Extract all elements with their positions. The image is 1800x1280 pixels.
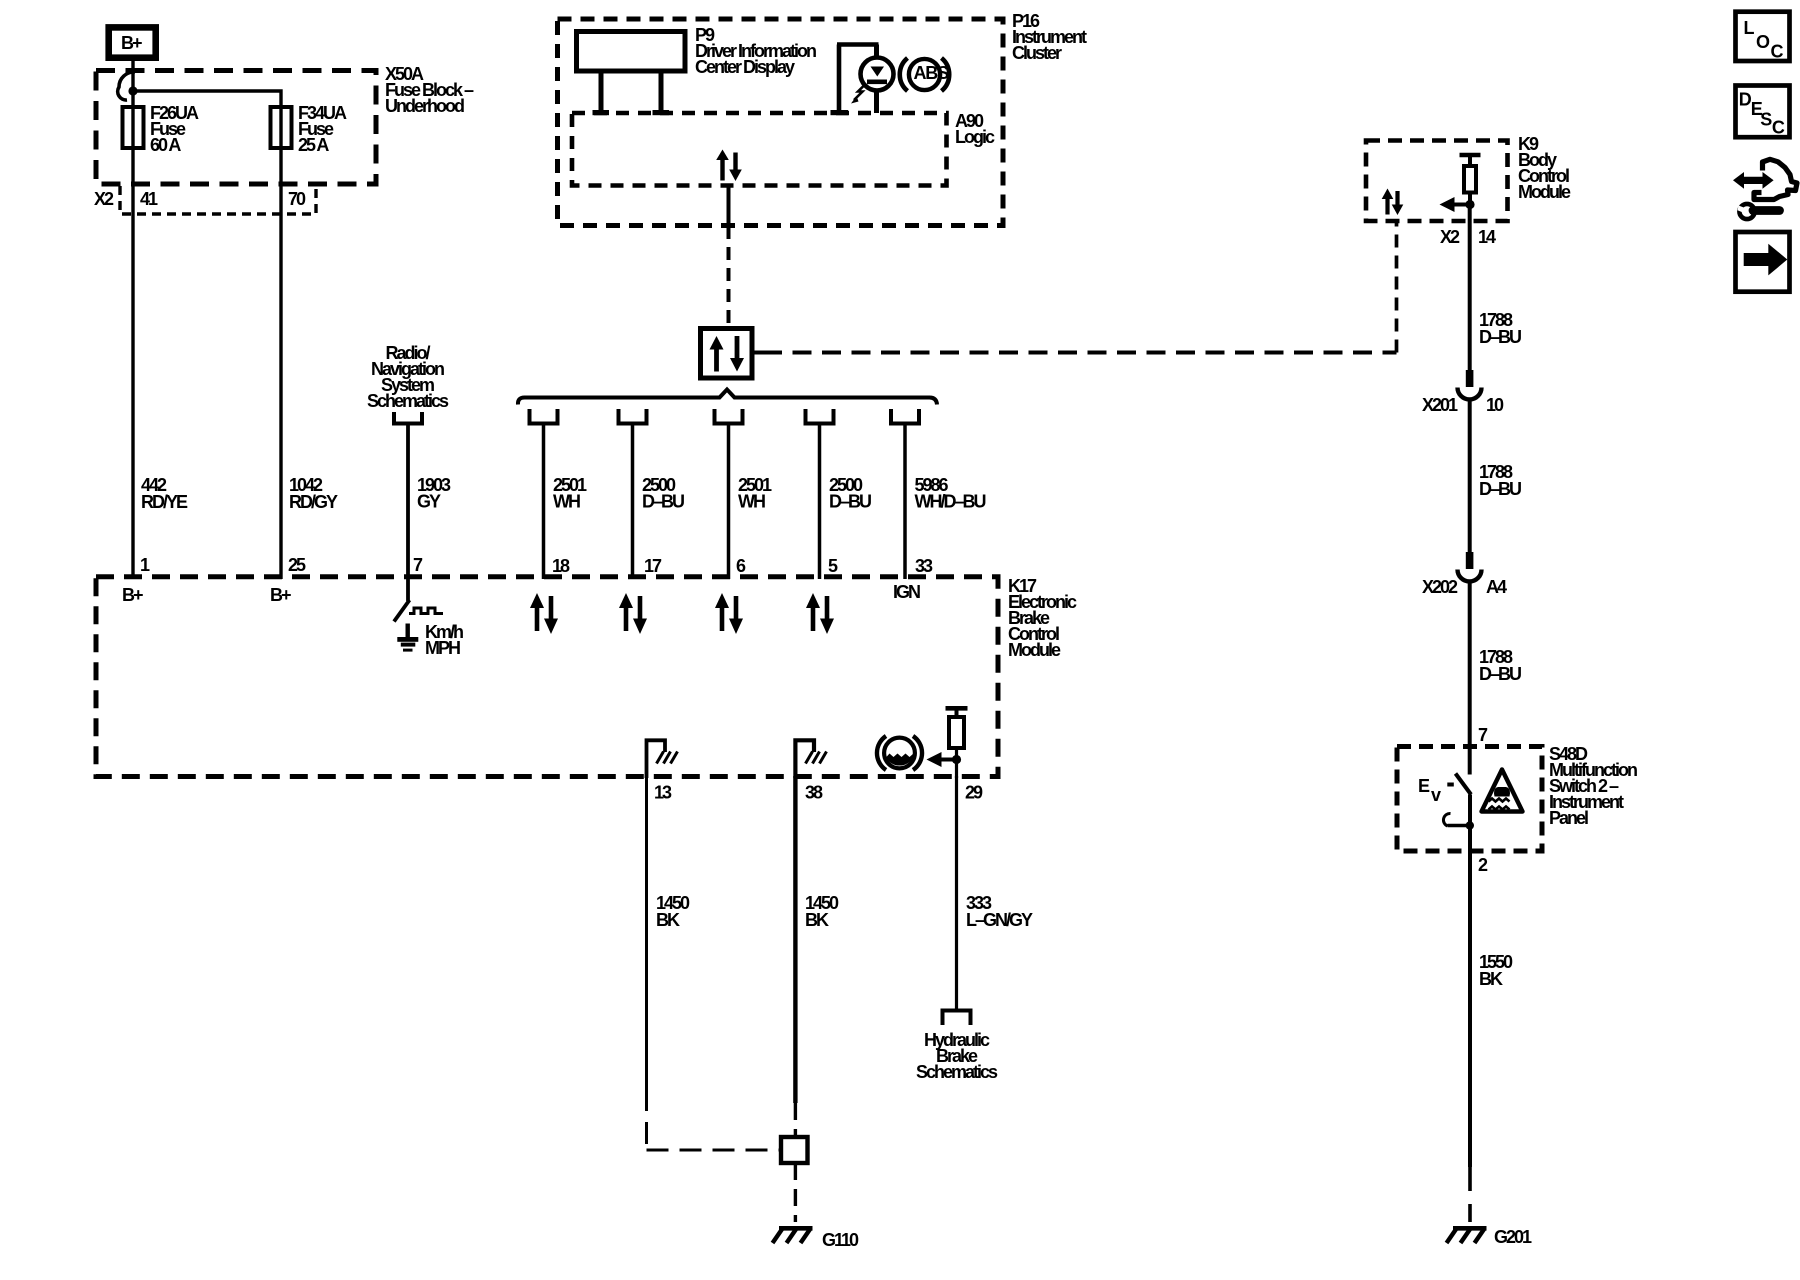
label fuse F34UA 25 A	[298, 103, 347, 155]
label K9 Body Control Module	[1518, 134, 1571, 202]
serial data arrows K17 pin 18	[530, 593, 558, 634]
wire S48D internal	[1468, 795, 1472, 852]
svg-text:L–GN/GY: L–GN/GY	[966, 910, 1033, 930]
logic module A90 dashed box	[572, 113, 947, 186]
svg-text:10: 10	[1486, 395, 1504, 415]
connector drop 3	[715, 409, 743, 424]
svg-text:60 A: 60 A	[150, 135, 181, 155]
power symbol B+	[109, 27, 156, 57]
battery bus curl	[118, 72, 135, 100]
momentary contact hook	[1443, 813, 1474, 829]
svg-text:Center Display: Center Display	[695, 57, 795, 77]
serial data arrows in A90	[716, 150, 742, 182]
svg-text:29: 29	[965, 783, 983, 803]
connector drop 2	[619, 409, 647, 424]
svg-text:X2: X2	[94, 189, 114, 209]
label S48D Multifunction Switch 2 - Instrument Panel	[1549, 744, 1637, 828]
svg-text:14: 14	[1478, 227, 1496, 247]
svg-text:18: 18	[552, 556, 570, 576]
junction node K9	[1465, 200, 1474, 209]
pin 17	[644, 556, 662, 576]
pin 33	[915, 556, 933, 576]
serial data arrows K9	[1382, 189, 1404, 216]
ABS indicator symbol	[900, 58, 949, 91]
signal ground Km/h MPH	[397, 622, 463, 658]
label connector X2	[94, 189, 114, 209]
svg-text:D–BU: D–BU	[1479, 327, 1521, 347]
svg-text:GY: GY	[417, 492, 441, 512]
svg-text:70: 70	[288, 189, 306, 209]
svg-text:Logic: Logic	[955, 127, 995, 147]
wire A90 to serial data symbol	[727, 186, 731, 329]
K17 module dashed box	[96, 577, 998, 777]
wire splice to ground G110	[794, 1163, 797, 1222]
inline connector X201 pin 10	[1422, 370, 1504, 415]
label P16 Instrument Cluster	[1012, 11, 1087, 63]
dashed data wire to K9	[753, 222, 1397, 353]
svg-text:X202: X202	[1422, 577, 1458, 597]
resistor pin 29	[946, 708, 968, 778]
PWM square wave symbol	[409, 608, 443, 614]
wire junction to fuse F34UA	[133, 91, 281, 186]
svg-text:D–BU: D–BU	[1479, 664, 1521, 684]
svg-text:D–BU: D–BU	[642, 492, 684, 512]
svg-text:25: 25	[288, 555, 306, 575]
pin 13	[654, 783, 672, 803]
pin 6	[736, 556, 746, 576]
fuse F26UA	[123, 107, 144, 148]
icon forward arrow	[1736, 232, 1790, 292]
wire 1450 BK pin 13	[647, 776, 782, 1150]
pin 41	[140, 189, 158, 209]
internal ground pin 13	[647, 740, 678, 778]
svg-text:BK: BK	[1479, 969, 1503, 989]
label X50A Fuse Block - Underhood	[385, 64, 474, 116]
wire 2500 17	[633, 426, 685, 580]
pin 25	[288, 555, 306, 575]
inline connector X202 pin A4	[1422, 552, 1507, 597]
instrument cluster P16 dashed box	[558, 19, 1004, 226]
serial data arrows K17 pin 6	[715, 593, 743, 634]
pin 7 S48D	[1478, 725, 1488, 745]
icon LOC	[1736, 12, 1790, 62]
svg-text:13: 13	[654, 783, 672, 803]
wire 1042 RD/GY	[281, 186, 338, 579]
svg-text:BK: BK	[805, 910, 829, 930]
pin 29	[965, 783, 983, 803]
svg-text:A4: A4	[1486, 577, 1507, 597]
svg-text:Underhood: Underhood	[385, 96, 464, 116]
label Hydraulic Brake Schematics	[916, 1030, 998, 1082]
label connector X2 pin 14	[1440, 227, 1496, 247]
label K17 Electronic Brake Control Module	[1008, 576, 1077, 660]
wire 2501 18	[544, 426, 588, 580]
svg-text:WH: WH	[553, 492, 580, 512]
label Radio/Navigation System Schematics	[367, 343, 449, 411]
resistor in K9	[1460, 155, 1481, 205]
svg-text:B+: B+	[270, 585, 291, 605]
label B+ pin 1	[122, 585, 143, 605]
wire B+ feed	[131, 61, 134, 186]
svg-text:WH/D–BU: WH/D–BU	[915, 492, 986, 512]
pin 1	[140, 555, 150, 575]
svg-text:RD/GY: RD/GY	[289, 492, 338, 512]
label IGN	[893, 582, 920, 602]
svg-text:G201: G201	[1494, 1227, 1532, 1247]
ground G201	[1447, 1227, 1533, 1247]
svg-text:X2: X2	[1440, 227, 1460, 247]
pin 2	[1478, 855, 1488, 875]
wire 2501 6	[729, 426, 773, 580]
svg-text:B+: B+	[121, 33, 142, 53]
svg-text:IGN: IGN	[893, 582, 920, 602]
speed signal switch blade	[394, 579, 410, 622]
svg-text:X201: X201	[1422, 395, 1458, 415]
splice S-box	[781, 1137, 808, 1163]
svg-text:G110: G110	[822, 1230, 859, 1250]
body control module K9 dashed box	[1366, 141, 1508, 222]
junction node pin 29	[952, 755, 961, 764]
svg-text:17: 17	[644, 556, 662, 576]
wire 1788 D-BU middle	[1470, 400, 1521, 554]
internal ground pin 38	[795, 740, 826, 778]
label B+ pin 25	[270, 585, 291, 605]
serial data communication symbol	[701, 329, 753, 379]
off-page connector radio/nav	[394, 412, 422, 424]
pin 70	[288, 189, 306, 209]
off-page connector hydraulic brake	[943, 1011, 971, 1026]
wire 1903 GY	[408, 426, 451, 580]
svg-text:Module: Module	[1518, 182, 1571, 202]
svg-text:Schematics: Schematics	[916, 1062, 998, 1082]
pin 18	[552, 556, 570, 576]
serial data arrows K17 pin 17	[619, 593, 647, 634]
svg-text:Schematics: Schematics	[367, 391, 449, 411]
wire 1788 D-BU upper	[1470, 205, 1521, 372]
svg-text:Module: Module	[1008, 640, 1061, 660]
label A90 Logic	[955, 111, 995, 147]
junction node	[128, 86, 137, 95]
switch blade S48D	[1456, 774, 1472, 795]
label fuse F26UA 60 A	[150, 103, 199, 155]
traction control icon	[1482, 770, 1523, 812]
wire 1450 BK pin 38	[795, 776, 839, 1137]
brake warning LED indicator	[831, 45, 894, 116]
pin 7 K17	[413, 555, 423, 575]
wire 5986 33	[905, 426, 985, 580]
label P9 Driver Information Center Display	[695, 25, 816, 77]
svg-text:38: 38	[805, 783, 823, 803]
pin 5	[828, 556, 838, 576]
wire 333 L-GN/GY	[957, 776, 1034, 1009]
wire 442 RD/YE	[133, 186, 188, 579]
svg-text:41: 41	[140, 189, 158, 209]
bus brace	[518, 390, 937, 405]
svg-text:RD/YE: RD/YE	[141, 492, 188, 512]
arrow to brake symbol	[927, 752, 957, 767]
icon DESC	[1736, 86, 1790, 138]
fuse block X50A dashed box	[96, 71, 376, 185]
ground G110	[773, 1228, 860, 1250]
fuse F34UA	[271, 107, 292, 148]
brake fluid warning symbol	[877, 736, 922, 770]
connector drop 1	[530, 409, 558, 424]
label Ev	[1418, 776, 1454, 805]
svg-text:25 A: 25 A	[298, 135, 329, 155]
icon data link wrench	[1733, 159, 1797, 219]
svg-text:D–BU: D–BU	[829, 492, 871, 512]
wire 2500 5	[820, 426, 872, 580]
svg-text:WH: WH	[738, 492, 765, 512]
svg-text:BK: BK	[656, 910, 680, 930]
svg-text:O: O	[1756, 32, 1770, 52]
wire 1550 BK	[1470, 851, 1513, 1222]
svg-text:D–BU: D–BU	[1479, 479, 1521, 499]
wire 1788 D-BU lower	[1470, 582, 1521, 775]
svg-text:Panel: Panel	[1549, 808, 1588, 828]
multifunction switch S48D dashed box	[1397, 747, 1542, 852]
svg-text:Cluster: Cluster	[1012, 43, 1062, 63]
connector X2 of fuse block	[120, 186, 316, 214]
svg-text:MPH: MPH	[425, 638, 460, 658]
pin 38	[805, 783, 823, 803]
svg-text:B+: B+	[122, 585, 143, 605]
serial data arrows K17 pin 5	[806, 593, 834, 634]
arrow K9 internal	[1440, 197, 1471, 212]
connector drop 4	[806, 409, 834, 424]
svg-text:33: 33	[915, 556, 933, 576]
connector drop 5	[891, 409, 919, 424]
svg-text:ABS: ABS	[914, 63, 950, 83]
display P9	[577, 32, 686, 116]
